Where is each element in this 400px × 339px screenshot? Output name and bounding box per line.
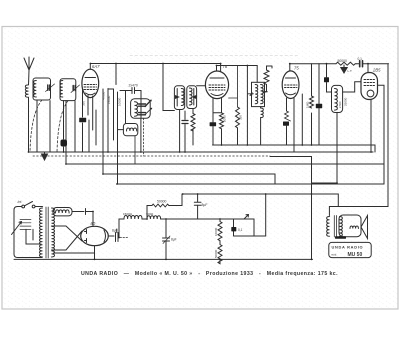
svg-text:8µF: 8µF bbox=[171, 238, 177, 242]
svg-text:MU 50: MU 50 bbox=[348, 252, 363, 258]
svg-text:6A7: 6A7 bbox=[92, 64, 100, 69]
svg-text:0,1: 0,1 bbox=[238, 228, 243, 232]
svg-text:2x470: 2x470 bbox=[129, 84, 138, 88]
svg-text:80: 80 bbox=[91, 221, 96, 226]
svg-text:300Ω: 300Ω bbox=[146, 212, 154, 216]
svg-text:50000: 50000 bbox=[338, 59, 348, 63]
svg-text:2.500: 2.500 bbox=[338, 101, 342, 108]
svg-text:47000: 47000 bbox=[102, 91, 106, 100]
svg-text:mod.: mod. bbox=[331, 253, 337, 257]
svg-text:UNDA RADIO — Modello « M: UNDA RADIO — Modello « M. U. 50 » - Prod… bbox=[81, 271, 338, 277]
svg-text:78: 78 bbox=[223, 64, 228, 69]
svg-text:350: 350 bbox=[82, 101, 86, 106]
svg-text:1500Ω: 1500Ω bbox=[123, 212, 133, 216]
svg-text:10000: 10000 bbox=[214, 227, 218, 236]
svg-text:10000: 10000 bbox=[118, 97, 122, 106]
svg-text:50000: 50000 bbox=[214, 249, 218, 258]
svg-text:UNDA RADIO: UNDA RADIO bbox=[332, 245, 364, 250]
svg-text:50000: 50000 bbox=[157, 200, 167, 204]
svg-text:Int.: Int. bbox=[18, 200, 23, 204]
svg-text:75: 75 bbox=[294, 66, 299, 71]
svg-text:8µF: 8µF bbox=[202, 203, 208, 207]
svg-text:25000: 25000 bbox=[344, 97, 348, 106]
svg-text:15000: 15000 bbox=[107, 95, 111, 104]
svg-text:350: 350 bbox=[239, 115, 243, 120]
svg-text:2000: 2000 bbox=[223, 115, 227, 122]
svg-text:8µF: 8µF bbox=[112, 229, 118, 233]
svg-text:2B5: 2B5 bbox=[372, 68, 381, 73]
svg-text:L.T: L.T bbox=[348, 69, 353, 73]
svg-text:0,1: 0,1 bbox=[358, 57, 363, 61]
svg-text:1MΩ: 1MΩ bbox=[306, 101, 310, 108]
